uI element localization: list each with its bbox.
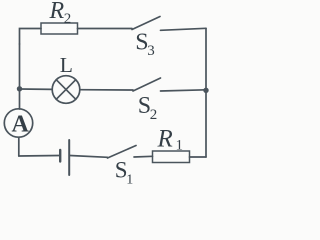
label S1 [115, 157, 134, 187]
label R1 [157, 125, 184, 153]
wire top-left to R2 [20, 29, 42, 45]
resistor R2 [41, 23, 78, 34]
node right junction [203, 88, 208, 93]
switch S1 [108, 146, 137, 159]
wire S3 to top-right corner [161, 28, 207, 30]
wire S2 to right wire [161, 90, 207, 91]
switch S3 [132, 17, 160, 30]
wire bottom-left to battery [19, 155, 60, 158]
wire lamp to S2 [80, 89, 133, 91]
svg-text:1: 1 [126, 173, 133, 188]
label S3 [135, 30, 155, 60]
label S2 [138, 93, 158, 123]
ammeter A [4, 109, 32, 137]
svg-text:3: 3 [147, 43, 155, 59]
wire S1 to R1 [134, 155, 153, 158]
switch S2 [133, 78, 161, 91]
lamp L [52, 76, 80, 104]
wire R2 to S3 [78, 28, 133, 30]
label R2 [49, 0, 72, 27]
svg-text:1: 1 [176, 138, 184, 154]
wire battery to S1 [70, 156, 108, 158]
svg-text:L: L [60, 53, 73, 77]
wire right vertical [205, 28, 207, 157]
wire R1 to right wire [190, 156, 207, 158]
svg-text:R: R [49, 0, 65, 24]
svg-text:A: A [12, 112, 30, 138]
wire left vertical lower [18, 137, 20, 156]
svg-text:2: 2 [64, 11, 72, 27]
node left junction [17, 86, 22, 91]
svg-text:2: 2 [150, 107, 158, 123]
svg-text:R: R [157, 125, 173, 152]
wire left vertical upper [19, 44, 21, 109]
wire node to lamp [20, 88, 53, 90]
battery [60, 140, 69, 175]
resistor R1 [153, 151, 190, 163]
